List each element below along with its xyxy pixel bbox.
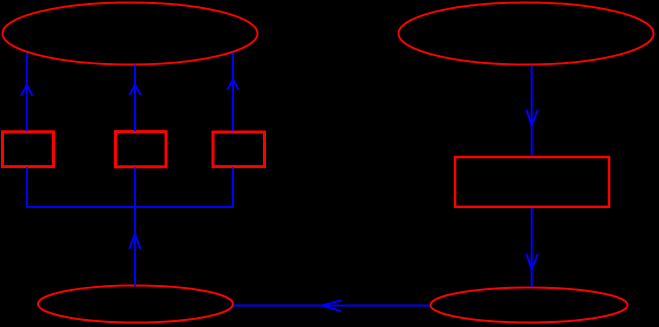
arrowhead up on center wire xyxy=(129,234,140,249)
rectangle left 1 xyxy=(3,132,54,167)
wire bottom ellipse to bus xyxy=(134,167,136,286)
wire rect2 to top ellipse xyxy=(134,65,136,132)
rectangle left 3 xyxy=(213,132,265,167)
wire bottom-right ellipse to bottom-left ellipse xyxy=(234,305,430,307)
bus below rectangles xyxy=(27,167,233,207)
arrowhead up on wire 3 xyxy=(227,80,239,90)
arrowhead down on right lower wire xyxy=(526,254,537,270)
arrowhead down on right upper wire xyxy=(526,110,537,126)
ellipse bottom-left xyxy=(38,286,233,323)
rectangle left 2 xyxy=(116,132,167,167)
ellipse bottom-right xyxy=(431,288,628,323)
wire right rectangle to bottom-right ellipse xyxy=(531,208,533,287)
arrowhead left on bottom wire xyxy=(322,300,341,311)
wire top-right ellipse to right rectangle xyxy=(531,65,533,156)
arrowhead up on wire 2 xyxy=(129,85,140,96)
arrowhead up on wire 1 xyxy=(21,85,33,96)
ellipse top-left xyxy=(3,3,258,65)
rectangle right xyxy=(455,157,609,207)
wire rect1 to top ellipse xyxy=(26,53,28,131)
ellipse top-right xyxy=(399,3,654,65)
wire rect3 to top ellipse xyxy=(232,53,234,132)
